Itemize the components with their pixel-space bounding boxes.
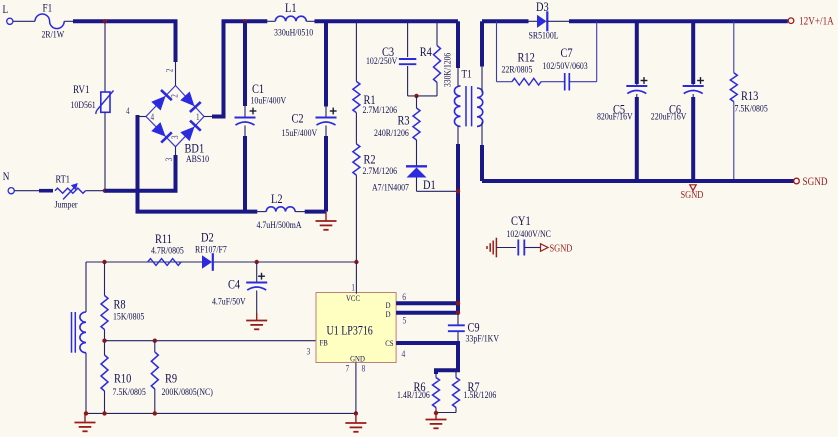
svg-text:8: 8 xyxy=(362,363,366,374)
svg-text:330K/1206: 330K/1206 xyxy=(442,52,453,87)
svg-text:A7/1N4007: A7/1N4007 xyxy=(372,182,409,193)
svg-text:F1: F1 xyxy=(43,3,53,15)
svg-text:2R/1W: 2R/1W xyxy=(42,29,65,40)
svg-text:D: D xyxy=(386,309,391,319)
svg-text:SGND: SGND xyxy=(550,244,573,255)
svg-text:T1: T1 xyxy=(462,69,472,81)
svg-text:4: 4 xyxy=(402,348,406,359)
svg-text:D3: D3 xyxy=(536,0,549,14)
svg-text:1.4R/1206: 1.4R/1206 xyxy=(397,389,430,400)
svg-text:1: 1 xyxy=(351,282,355,293)
svg-text:R3: R3 xyxy=(398,113,410,127)
svg-text:10uF/400V: 10uF/400V xyxy=(251,95,287,106)
svg-text:C2: C2 xyxy=(292,112,304,126)
svg-text:VCC: VCC xyxy=(346,293,360,303)
svg-text:4.7uF/50V: 4.7uF/50V xyxy=(212,296,246,307)
svg-text:6: 6 xyxy=(402,291,406,302)
svg-text:102/400V/NC: 102/400V/NC xyxy=(507,228,551,239)
svg-text:U1 LP3716: U1 LP3716 xyxy=(327,325,374,338)
svg-text:4: 4 xyxy=(151,112,155,122)
svg-text:2: 2 xyxy=(165,69,175,73)
svg-text:12V+/1A: 12V+/1A xyxy=(799,16,834,28)
svg-text:3: 3 xyxy=(170,135,180,139)
svg-text:RV1: RV1 xyxy=(73,84,90,96)
svg-text:N: N xyxy=(3,171,10,183)
svg-text:2: 2 xyxy=(170,94,180,98)
svg-text:R10: R10 xyxy=(114,371,131,385)
svg-text:RT1: RT1 xyxy=(56,175,71,186)
svg-text:10D561: 10D561 xyxy=(71,99,96,110)
svg-text:4: 4 xyxy=(126,106,130,116)
svg-text:15uF/400V: 15uF/400V xyxy=(282,127,318,138)
svg-text:RF107/F7: RF107/F7 xyxy=(195,244,227,255)
svg-text:4.7uH/500mA: 4.7uH/500mA xyxy=(257,219,303,230)
svg-text:R13: R13 xyxy=(741,89,758,103)
svg-text:D1: D1 xyxy=(423,178,436,192)
svg-text:5: 5 xyxy=(403,315,407,326)
svg-text:R12: R12 xyxy=(518,50,535,64)
svg-text:1: 1 xyxy=(196,112,200,122)
svg-text:CS: CS xyxy=(385,338,393,348)
svg-text:R9: R9 xyxy=(165,371,177,385)
svg-text:15K/0805: 15K/0805 xyxy=(113,310,145,321)
svg-text:C7: C7 xyxy=(561,46,573,60)
svg-text:200K/0805(NC): 200K/0805(NC) xyxy=(162,386,213,397)
svg-text:7.5K/0805: 7.5K/0805 xyxy=(735,103,769,114)
svg-text:Jumper: Jumper xyxy=(55,199,78,210)
svg-text:R4: R4 xyxy=(420,45,432,59)
svg-text:22R/0805: 22R/0805 xyxy=(502,64,533,75)
svg-text:4.7R/0805: 4.7R/0805 xyxy=(151,244,184,255)
svg-text:SGND: SGND xyxy=(681,190,704,201)
svg-text:33pF/1KV: 33pF/1KV xyxy=(466,333,500,344)
svg-text:3: 3 xyxy=(164,158,174,162)
svg-text:330uH/0510: 330uH/0510 xyxy=(274,27,314,38)
svg-text:7.5K/0805: 7.5K/0805 xyxy=(113,386,147,397)
svg-text:L2: L2 xyxy=(271,192,283,206)
svg-text:SGND: SGND xyxy=(803,176,828,188)
svg-text:SR5100L: SR5100L xyxy=(529,30,559,41)
svg-text:2.7M/1206: 2.7M/1206 xyxy=(363,165,398,176)
svg-text:ABS10: ABS10 xyxy=(186,153,210,164)
svg-text:240R/1206: 240R/1206 xyxy=(374,127,409,138)
svg-text:L1: L1 xyxy=(285,1,297,15)
svg-text:102/250V: 102/250V xyxy=(366,55,398,66)
svg-text:102/50V/0603: 102/50V/0603 xyxy=(543,60,589,71)
svg-text:820uF/16V: 820uF/16V xyxy=(597,111,633,122)
svg-text:FB: FB xyxy=(320,338,328,348)
svg-text:D2: D2 xyxy=(201,230,214,244)
svg-text:C4: C4 xyxy=(228,277,240,291)
svg-text:220uF/16V: 220uF/16V xyxy=(651,111,687,122)
svg-text:1.5R/1206: 1.5R/1206 xyxy=(464,389,497,400)
svg-text:CY1: CY1 xyxy=(511,214,531,228)
svg-text:2.7M/1206: 2.7M/1206 xyxy=(363,104,398,115)
svg-text:3: 3 xyxy=(307,346,311,357)
svg-text:7: 7 xyxy=(346,363,350,374)
svg-text:L: L xyxy=(3,4,9,16)
